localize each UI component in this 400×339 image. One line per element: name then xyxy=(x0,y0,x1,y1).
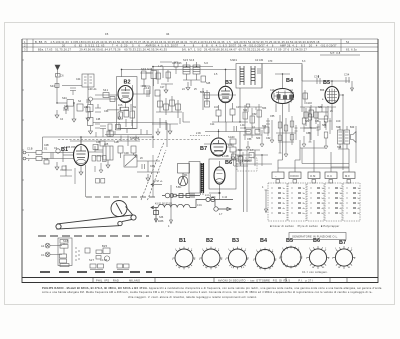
wires mixer cluster xyxy=(152,94,182,130)
resistor S82 xyxy=(324,116,328,122)
socket B7 xyxy=(335,249,352,266)
svg-text:1C5: 1C5 xyxy=(118,104,123,107)
socket pin ticks xyxy=(173,246,356,271)
footer bar bottom line xyxy=(22,282,378,284)
svg-text:C7F: C7F xyxy=(268,60,273,63)
header stems xyxy=(278,168,349,172)
resistor/capacitor cluster left of B5 xyxy=(300,107,336,149)
svg-text:C4B: C4B xyxy=(114,141,119,144)
wire run right xyxy=(137,161,160,172)
svg-text:C11: C11 xyxy=(142,85,147,88)
capacitor C7b xyxy=(86,100,90,102)
switch dashed col 1 xyxy=(268,183,287,221)
diagonal dial lines xyxy=(141,142,166,200)
svg-text:C1B: C1B xyxy=(27,147,33,151)
wire h y103 xyxy=(57,102,67,104)
svg-text:5.BC: 5.BC xyxy=(176,186,182,189)
pointer arrow xyxy=(170,185,173,224)
switch header box 2 xyxy=(289,172,301,179)
svg-text:C.10: C.10 xyxy=(222,196,228,199)
contact digit columns xyxy=(283,188,361,215)
svg-text:1 S58 C58: 1 S58 C58 xyxy=(64,146,76,149)
bus y137 xyxy=(43,137,154,150)
left col circle xyxy=(89,97,93,101)
svg-text:S50: S50 xyxy=(243,109,248,112)
tube B7 xyxy=(211,138,227,156)
svg-text:C17B: C17B xyxy=(100,258,107,262)
IF can double rect xyxy=(103,146,113,160)
resistor S81 xyxy=(308,114,312,120)
chain B1 right xyxy=(89,146,104,152)
svg-text:C25 C26: C25 C26 xyxy=(172,62,182,65)
wires transformer xyxy=(332,112,349,149)
svg-text:S56: S56 xyxy=(262,125,267,128)
svg-text:B2: B2 xyxy=(124,80,131,86)
svg-text:B4: B4 xyxy=(260,238,268,244)
small parts under xyxy=(44,160,49,164)
cap xyxy=(51,153,53,159)
svg-text:0.01: 0.01 xyxy=(197,204,202,207)
B3 top to bus xyxy=(213,69,236,86)
svg-text:C47: C47 xyxy=(236,106,241,109)
tube B2 xyxy=(118,86,133,103)
parts left of can xyxy=(95,144,103,156)
svg-text:C17: C17 xyxy=(160,86,165,89)
wire v x74 xyxy=(73,103,75,119)
resistor S4b xyxy=(67,100,74,107)
svg-text:C4B: C4B xyxy=(44,144,49,147)
resistor S74 xyxy=(290,135,294,141)
svg-text:C48: C48 xyxy=(96,141,101,144)
right of B2 wires xyxy=(141,73,154,94)
bus y66.6 xyxy=(153,66,213,68)
below tube parts xyxy=(120,102,131,112)
wire h y85 xyxy=(62,85,82,87)
TP dashed box xyxy=(237,158,257,171)
B3 wires left xyxy=(203,88,219,110)
svg-text:B5a, 17,63 51,75,26,27: B5a, 17,63 51,75,26,27 29,43,56,66,50,61… xyxy=(38,48,202,52)
svg-text:S38: S38 xyxy=(63,239,69,243)
B5 left extra xyxy=(302,65,328,113)
wires under B3 to switch xyxy=(226,122,260,166)
svg-text:S82: S82 xyxy=(305,120,310,123)
tube B6 xyxy=(214,167,225,184)
main border left xyxy=(21,39,23,283)
IF hatch bar xyxy=(201,163,204,195)
svg-text:S.BC: S.BC xyxy=(210,196,216,199)
svg-text:S1b: S1b xyxy=(44,158,49,161)
svg-text:S64: S64 xyxy=(238,149,243,152)
dashed strip xyxy=(76,247,79,261)
left col wires xyxy=(89,101,93,134)
svg-text:63, 6.3ɕ: 63, 6.3ɕ xyxy=(346,48,357,52)
ground under B4 xyxy=(284,150,288,157)
ground below coil xyxy=(86,112,90,121)
resistor2 xyxy=(36,157,42,161)
wire chain xyxy=(26,150,74,162)
svg-text:corte e una banda allargata FM: corte e una banda allargata FM. Media fr… xyxy=(42,290,373,294)
under B3 cluster additions (242-262, 104-120) xyxy=(219,95,262,112)
svg-text:2.06: 2.06 xyxy=(196,132,201,135)
svg-text:S4b: S4b xyxy=(62,96,68,100)
antenna xyxy=(55,65,60,76)
riser x240 xyxy=(239,88,241,122)
left col res2 xyxy=(88,118,94,126)
dial pulley small left xyxy=(56,224,61,229)
svg-text:B7: B7 xyxy=(200,146,207,152)
wire B5 right xyxy=(339,95,343,170)
svg-text:B6: B6 xyxy=(225,160,232,166)
svg-text:S86: S86 xyxy=(322,124,327,127)
svg-text:C4D: C4D xyxy=(124,152,129,155)
svg-text:S1: S1 xyxy=(44,147,48,151)
left arrow a S7 xyxy=(151,183,162,186)
resistor below coil xyxy=(86,107,90,112)
sub B2 rect xyxy=(121,107,129,110)
socket B2 xyxy=(202,249,220,267)
bus y122.6 xyxy=(93,123,167,147)
osc coil rect 2 xyxy=(193,65,200,74)
arrow beside block xyxy=(265,190,268,213)
svg-text:B56: B56 xyxy=(320,89,325,92)
dashed guide top xyxy=(86,196,156,198)
B3 coil box xyxy=(236,64,262,89)
junction dots xyxy=(219,192,221,194)
svg-text:B5: B5 xyxy=(286,238,293,244)
parts below B2box xyxy=(117,136,140,147)
dashed bus y139.7 xyxy=(58,139,200,141)
risers to switch headers xyxy=(278,115,349,168)
dashes left border area xyxy=(22,60,24,210)
socket B6 xyxy=(309,249,326,266)
svg-text:C1F: C1F xyxy=(270,89,275,92)
wire to B1 xyxy=(63,154,74,156)
right of tube xyxy=(133,88,150,94)
svg-text:C14: C14 xyxy=(210,123,215,126)
small rects right xyxy=(85,248,90,253)
B5 top xyxy=(331,81,333,87)
component box xyxy=(58,238,72,266)
socket B1 xyxy=(175,249,193,267)
svg-text:43 S1 S0 S2 S3: 43 S1 S0 S2 S3 xyxy=(155,203,173,206)
wires into block xyxy=(236,132,272,213)
svg-text:4036: 4036 xyxy=(158,220,164,223)
terminal 2 xyxy=(23,157,26,160)
svg-text:B3: B3 xyxy=(225,80,232,86)
B1 bottom wire xyxy=(79,166,83,176)
comp stack xyxy=(60,240,68,244)
phono plug A xyxy=(45,243,50,248)
IF hatched black bar xyxy=(201,163,204,193)
svg-text:C84: C84 xyxy=(315,120,320,123)
belt xyxy=(57,207,134,230)
svg-text:C14b: C14b xyxy=(237,155,243,158)
svg-text:54,43,52,36,70,25,40,31,35,34,: 54,43,52,36,70,25,40,31,35,34,50,43,96,3… xyxy=(248,40,320,44)
top right mark xyxy=(320,54,360,56)
svg-text:C34: C34 xyxy=(344,73,350,77)
svg-text:1C0: 1C0 xyxy=(214,106,219,109)
dashed at left of B7 xyxy=(190,135,210,137)
B25 box xyxy=(103,248,110,254)
B4 to top xyxy=(275,74,290,89)
svg-text:C36: C36 xyxy=(150,165,155,168)
B3 below xyxy=(212,103,248,122)
resistor S72 xyxy=(290,121,294,127)
cap on wire xyxy=(317,75,320,84)
osc coil rect 1 xyxy=(183,65,190,74)
B6 box xyxy=(209,159,236,189)
tuning meter circle xyxy=(178,164,190,186)
svg-text:B2: B2 xyxy=(206,238,213,244)
wires above switch right xyxy=(204,126,356,167)
comp on wire xyxy=(103,93,109,98)
svg-text:34: 34 xyxy=(166,32,170,36)
switch header box 1 xyxy=(272,172,284,179)
left col B2 extra marks xyxy=(95,104,101,128)
svg-text:B3: B3 xyxy=(232,238,239,244)
svg-text:1C9: 1C9 xyxy=(336,120,341,123)
left col res1 xyxy=(88,105,94,112)
svg-text:GENERATORE IN FUNZIONE O.L.: GENERATORE IN FUNZIONE O.L. xyxy=(292,235,338,239)
svg-text:TP.7b0: TP.7b0 xyxy=(244,160,252,163)
svg-text:S106 S6: S106 S6 xyxy=(130,137,140,140)
svg-text:20 0 62 5, 5.12,: 20 0 62 5, 5.12, 12, 63 7 4 0 20 5 6 AMP… xyxy=(62,44,204,48)
wire above B7 xyxy=(205,129,250,138)
svg-text:24b: 24b xyxy=(84,106,89,109)
svg-text:B7: B7 xyxy=(339,240,346,246)
resistor S21 xyxy=(158,101,163,107)
svg-text:A1: A1 xyxy=(41,244,45,248)
chain labels xyxy=(155,194,223,223)
B3 inner xyxy=(221,88,230,97)
svg-text:S40: S40 xyxy=(50,84,56,88)
svg-text:S/T. 0.8: S/T. 0.8 xyxy=(330,51,341,55)
svg-text:S45: S45 xyxy=(206,82,211,85)
C17B circle xyxy=(104,256,109,261)
svg-text:C52: C52 xyxy=(252,113,257,116)
resistor/capacitor cluster under B4 xyxy=(276,115,298,157)
B6 inner xyxy=(216,170,223,174)
ground mixer xyxy=(156,129,160,136)
h wire y148 right xyxy=(300,147,325,149)
svg-text:15: 15 xyxy=(105,32,109,36)
svg-text:S.O: S.O xyxy=(204,62,208,65)
svg-text:C1: C1 xyxy=(41,253,45,257)
ground x74 xyxy=(72,119,76,122)
top wire y81 xyxy=(302,80,350,82)
terminal 1 xyxy=(23,151,26,154)
svg-text:C4 C30: C4 C30 xyxy=(255,59,264,62)
wire v x88 below coil xyxy=(87,87,89,104)
B1 top wire xyxy=(80,138,82,145)
extra components right of B1 xyxy=(60,141,115,197)
svg-text:M.F: M.F xyxy=(345,174,350,178)
svg-text:S27: S27 xyxy=(89,258,95,262)
svg-text:S95: S95 xyxy=(337,146,342,149)
bus y110 xyxy=(107,109,119,111)
svg-text:PHIL IPS RAD . MIL: PHIL IPS RAD . MILANO xyxy=(96,279,140,283)
resistor S80 xyxy=(302,118,306,124)
left chain xyxy=(306,105,316,130)
tube B5 xyxy=(325,87,339,104)
osc left extras x155-180 y70-95 xyxy=(158,67,168,84)
footer bar top line xyxy=(22,277,378,279)
junction dots xyxy=(56,66,343,156)
ground ant xyxy=(55,110,59,118)
output transformer xyxy=(338,130,344,144)
tube B4 xyxy=(272,89,294,104)
switch dashed col 4 xyxy=(325,183,342,221)
resistor S83 xyxy=(324,132,328,138)
socket B4 xyxy=(256,250,275,269)
svg-text:S80: S80 xyxy=(318,106,323,109)
socket pin tiny labels xyxy=(172,248,356,270)
coil chain speaker line xyxy=(151,199,196,222)
svg-text:AVIONI DI SEGUITO - tav. OTT: AVIONI DI SEGUITO - tav. OTTOBRE P.D. DI… xyxy=(218,279,313,283)
dial pulley small right2 xyxy=(118,221,122,225)
cluster 230-260,140-165 xyxy=(232,150,249,166)
svg-text:C58: C58 xyxy=(247,138,252,141)
svg-text:S45 S46: S45 S46 xyxy=(141,67,153,71)
table xyxy=(22,39,378,52)
svg-text:B, B5, /5 4.5,100,31,63 0.: B, B5, /5 4.5,100,31,63 0.005,150/4,66,3… xyxy=(35,40,247,44)
svg-text:S.Eb0: S.Eb0 xyxy=(228,136,235,139)
resistor S24 xyxy=(176,104,181,110)
svg-text:C55: C55 xyxy=(270,115,275,118)
caps row y130 x105-150 xyxy=(105,129,152,135)
svg-text:B05: B05 xyxy=(200,91,205,94)
coils inside xyxy=(240,66,255,85)
svg-text:B1: B1 xyxy=(179,238,186,244)
circle comp xyxy=(56,149,60,153)
phono plug B xyxy=(45,252,50,257)
osc caps below xyxy=(186,80,191,90)
svg-text:C88: C88 xyxy=(306,132,311,135)
plug connector xyxy=(162,193,200,198)
svg-text:a C4B: a C4B xyxy=(222,155,229,158)
resistor S73 xyxy=(278,135,282,141)
resistor S22 xyxy=(164,104,169,110)
cap right xyxy=(346,77,349,83)
B5 inner grid xyxy=(327,89,337,103)
osc wires xyxy=(183,62,200,80)
ground mixer2 xyxy=(168,124,172,134)
svg-text:1.4b: 1.4b xyxy=(240,124,245,127)
svg-text:FONO: FONO xyxy=(291,174,299,178)
wires plugs xyxy=(50,246,62,255)
svg-text:S15 S16: S15 S16 xyxy=(183,58,195,62)
switch dashed col 2 xyxy=(288,183,306,221)
socket B5 xyxy=(281,247,301,267)
wire antenna down xyxy=(56,76,58,103)
wires left of B5 xyxy=(300,107,336,118)
svg-text:C103: C103 xyxy=(306,102,312,105)
svg-text:B6: B6 xyxy=(313,238,320,244)
switch header box 3 xyxy=(308,172,320,179)
B4 inner electrodes xyxy=(274,93,278,99)
svg-text:S.MF1: S.MF1 xyxy=(230,59,238,62)
svg-text:A05: A05 xyxy=(104,143,109,146)
svg-text:14B: 14B xyxy=(96,118,101,121)
svg-text:S53: S53 xyxy=(262,107,267,110)
IF bar box xyxy=(189,162,200,194)
caps in box xyxy=(258,68,260,74)
B4 below pins xyxy=(276,103,289,115)
B7 inner xyxy=(213,140,224,151)
coil box L40/L41 xyxy=(82,74,94,87)
B6 wires xyxy=(209,161,220,199)
svg-text:C34: C34 xyxy=(104,110,109,113)
svg-text:40S: 40S xyxy=(228,144,233,147)
osc top extras xyxy=(160,62,178,74)
vertical x153 xyxy=(152,67,154,148)
resistor/capacitor cluster under B3 xyxy=(236,104,274,166)
tube B3 xyxy=(219,86,233,102)
lower comps xyxy=(115,125,120,130)
svg-text:S60: S60 xyxy=(256,137,261,140)
dial pulley small right1 xyxy=(131,215,136,220)
cap C12 xyxy=(147,90,149,97)
svg-text:C44: C44 xyxy=(76,78,81,81)
arrow below B2 xyxy=(118,113,121,120)
pair rects lower xyxy=(90,264,96,268)
wire left-tube xyxy=(93,95,119,99)
top bus from B2 box xyxy=(122,69,214,76)
resistor S70 xyxy=(278,122,282,128)
tuning cap box xyxy=(124,155,137,167)
svg-text:B40: B40 xyxy=(350,126,355,129)
resistor S40 xyxy=(55,84,59,88)
wires under B4 xyxy=(276,115,296,150)
B4 box xyxy=(262,64,302,113)
cap pair xyxy=(63,108,69,114)
capacitor C6 xyxy=(56,74,61,78)
switch header box 4 xyxy=(325,172,337,179)
arrow down xyxy=(351,81,354,91)
switch dashed col 3 xyxy=(307,183,324,221)
B5 bottom xyxy=(331,104,333,113)
dashed guide bottom xyxy=(38,235,149,237)
speaker xyxy=(351,132,357,143)
shield box B2 xyxy=(117,77,138,129)
grounds xyxy=(146,174,150,181)
svg-text:C62: C62 xyxy=(266,137,271,140)
svg-text:B25: B25 xyxy=(102,244,108,248)
svg-text:~: ~ xyxy=(275,175,277,178)
generatore box xyxy=(289,233,346,240)
B1 inner xyxy=(76,146,86,158)
svg-text:C1 = con collegam.: C1 = con collegam. xyxy=(302,270,328,274)
svg-text:L40 L41: L40 L41 xyxy=(88,88,97,91)
svg-text:■ Cover di carbon Plyre di: ■ Cover di carbon Plyre di carbon ■ Poly… xyxy=(270,224,339,228)
feet under headers xyxy=(276,180,280,184)
resistor S71 xyxy=(284,125,288,131)
svg-text:S36: S36 xyxy=(159,216,164,219)
socket B3 xyxy=(229,249,247,267)
svg-text:chia maggiori. V. costr. alcun: chia maggiori. V. costr. alcune di ricam… xyxy=(128,295,257,299)
right of B7 parts xyxy=(230,139,236,144)
resistor S23 xyxy=(170,100,175,106)
switch contacts xyxy=(272,188,357,214)
tube B1 xyxy=(74,145,89,166)
switch dashed col 5 xyxy=(343,183,360,221)
svg-text:42 S7 +L: 42 S7 +L xyxy=(153,180,163,183)
svg-text:S93: S93 xyxy=(336,126,341,129)
svg-text:1.25: 1.25 xyxy=(158,65,163,68)
svg-text:C1b: C1b xyxy=(64,105,69,108)
resistor xyxy=(36,151,42,155)
svg-text:29,43,56,66,50,61,64,67 60,75: 29,43,56,66,50,61,64,67 60,75,33,221,26,… xyxy=(204,48,307,52)
